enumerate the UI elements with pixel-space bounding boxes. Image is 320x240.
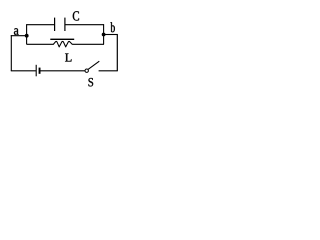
- wire: bottom left segment (left edge to battery): [11, 70, 36, 72]
- wire: left edge vertical: [10, 35, 12, 71]
- wire: right edge vertical: [116, 35, 118, 71]
- label b: [111, 22, 115, 32]
- battery short thick plate: [39, 68, 41, 74]
- wire: right vertical post at x=103.5 (capacitor branch down through node b to inductor branch): [103, 24, 105, 44]
- wire: top branch left segment (node a post to capacitor left plate): [27, 24, 55, 26]
- inductor L coil (3 humps with small dips): [53, 41, 72, 46]
- label C: [73, 11, 79, 20]
- wire: inductor branch left segment: [27, 43, 54, 45]
- wire: node a to left edge: [11, 35, 27, 37]
- battery long plate: [35, 65, 37, 77]
- wire: left vertical post at x=26.5 (capacitor branch down through node a to inductor branch): [26, 24, 28, 44]
- inductor L iron core bar: [50, 39, 74, 40]
- capacitor C right plate: [64, 18, 66, 31]
- label S: [89, 78, 94, 86]
- label a: [14, 28, 19, 35]
- wire: node b to right edge: [104, 34, 118, 36]
- node b junction dot: [102, 33, 106, 37]
- switch S pivot circle: [85, 69, 88, 72]
- wire: bottom right segment (under blade tip to right edge): [99, 70, 118, 72]
- wire: bottom middle segment (battery to switch pivot circle): [41, 70, 85, 72]
- capacitor C left plate: [54, 18, 56, 31]
- switch S blade (open, slanted up-right): [88, 61, 99, 69]
- node a junction dot: [25, 34, 29, 38]
- wire: inductor branch right segment: [72, 43, 104, 45]
- label L: [65, 54, 71, 62]
- wire: top branch right segment (capacitor right plate to node b post): [65, 24, 104, 26]
